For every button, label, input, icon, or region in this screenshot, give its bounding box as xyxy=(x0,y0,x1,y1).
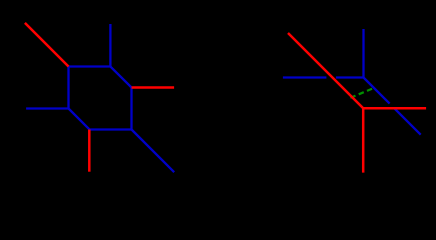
blue ray up from B xyxy=(109,24,111,67)
blue line SE diagonal ray, segment 2 xyxy=(394,108,421,135)
blue ray left from E xyxy=(26,107,68,109)
blue line horizontal ray, segment 1 (gap at red crossing) xyxy=(283,76,327,78)
red ray right from C xyxy=(132,86,175,89)
green dashed segment xyxy=(350,88,372,97)
tropical curves figure xyxy=(0,0,436,177)
red ray up-left from A xyxy=(25,23,69,67)
red line horizontal ray xyxy=(362,107,426,110)
red line NW diagonal ray xyxy=(288,33,363,108)
hexagon xyxy=(69,67,132,130)
blue line vertical ray xyxy=(362,29,364,78)
blue line SE diagonal ray, segment 1 (gap at red crossing) xyxy=(364,78,390,104)
blue line horizontal ray, segment 2 xyxy=(336,76,364,78)
red line vertical ray xyxy=(362,108,365,172)
red ray down from F xyxy=(88,130,91,172)
blue ray down-right from D xyxy=(132,130,175,173)
